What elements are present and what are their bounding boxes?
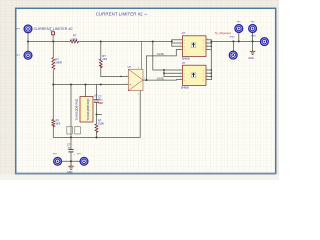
junction ref column bottom: [70, 136, 72, 138]
junction drain bus top: [210, 40, 212, 42]
wire R5 to bottom rail: [96, 131, 98, 137]
wire top box pin1 link: [172, 39, 183, 41]
junction bottom box bus b: [163, 72, 165, 74]
ground right: [250, 51, 256, 54]
svg-text:GND: GND: [251, 36, 256, 38]
svg-text:U?: U?: [94, 93, 98, 97]
junction input node: [27, 40, 29, 42]
bottom outside strip: [0, 175, 279, 180]
testpoint TP1 pad: [52, 32, 55, 35]
svg-text:GND: GND: [248, 57, 254, 60]
capacitor C bottom: [68, 150, 73, 152]
title trailing dash: [144, 13, 147, 15]
wire ref column: [70, 85, 72, 150]
wire ring2 stem: [252, 33, 254, 42]
svg-text:510K: 510K: [98, 121, 104, 125]
wire tlv top pin: [85, 85, 87, 97]
junction drain pin 6: [210, 45, 212, 47]
wire gnd stem right: [252, 41, 254, 51]
wire R4 column: [100, 42, 102, 60]
wire right rail: [211, 40, 260, 42]
svg-text:5: 5: [207, 48, 208, 50]
connector ring top2: [249, 25, 257, 33]
svg-text:1K0: 1K0: [56, 121, 61, 125]
sheet: [16, 8, 276, 173]
svg-text:7: 7: [207, 42, 208, 44]
svg-text:R?: R?: [73, 34, 77, 38]
svg-text:4: 4: [180, 78, 181, 80]
wire tp ring stem: [232, 41, 234, 50]
pin 2 speck: [120, 76, 122, 78]
junction drain pin 7b: [210, 72, 212, 74]
junction R4 top: [100, 40, 102, 42]
svg-text:GND: GND: [230, 37, 235, 39]
junction ring1 tap: [238, 40, 240, 42]
resistor R1 shunt: [70, 40, 79, 43]
wire opamp plus rail: [53, 84, 128, 86]
wire R2 column: [52, 42, 54, 58]
canvas background: [0, 0, 279, 180]
svg-text:2: 2: [180, 42, 181, 44]
mosfet U3 top box: [182, 36, 206, 57]
svg-text:6: 6: [207, 75, 208, 77]
svg-text:TLV431QDBVRQ1: TLV431QDBVRQ1: [76, 98, 79, 121]
svg-text:Tp_Rejected: Tp_Rejected: [215, 31, 231, 35]
junction out rail tee: [70, 160, 72, 162]
svg-text:3: 3: [180, 75, 181, 77]
svg-text:8: 8: [207, 39, 208, 41]
junction drain pin 6b: [210, 76, 212, 78]
wire gate elbow bottom: [176, 79, 182, 82]
connector ring IN-: [24, 51, 32, 59]
connector ring OUT+: [54, 157, 62, 165]
junction R2 top: [52, 40, 54, 42]
wire C6 R5 column: [96, 85, 98, 100]
svg-text:GND: GND: [67, 171, 73, 174]
connector ring rail end: [261, 38, 269, 46]
wire top box right pins: [206, 39, 211, 41]
wire R2 column lower: [52, 71, 54, 120]
svg-text:CURRENT LIMITER #2: CURRENT LIMITER #2: [96, 12, 143, 17]
junction R2 bottom node: [52, 83, 54, 85]
bottom border repaint: [15, 173, 277, 175]
svg-text:GATE: GATE: [157, 52, 164, 56]
wire top rail left: [28, 41, 70, 43]
svg-text:4: 4: [180, 48, 181, 50]
wire top box left bus: [171, 40, 173, 46]
wire bottom box source drop: [153, 42, 164, 71]
svg-text:GATE: GATE: [157, 76, 164, 80]
junction ref column top: [70, 83, 72, 85]
wire drain bus: [210, 40, 212, 80]
wire bottom box right pins: [206, 69, 211, 71]
svg-text:1: 1: [180, 69, 181, 71]
svg-text:8: 8: [207, 69, 208, 71]
svg-text:2K4: 2K4: [102, 57, 107, 61]
svg-text:4: 4: [138, 93, 139, 95]
wire C6 R5 column mid: [96, 102, 98, 124]
wire stub node: [97, 113, 102, 115]
junction C6 R5 mid node: [96, 113, 98, 115]
wire opamp V+: [140, 42, 142, 70]
svg-text:6: 6: [207, 45, 208, 47]
svg-text:3: 3: [180, 45, 181, 47]
svg-text:8: 8: [138, 67, 139, 69]
wire testpoint stub: [52, 35, 54, 42]
wire top box pin3 link: [172, 45, 183, 47]
junction gnd tap: [252, 40, 254, 42]
junction source drop tap: [152, 40, 154, 42]
junction drain pin 7: [210, 42, 212, 44]
svg-text:U?: U?: [128, 65, 132, 69]
junction R5 bottom: [95, 136, 97, 138]
junction bottom box bus a: [163, 69, 165, 71]
connector ring top1: [235, 25, 243, 33]
connector ring IN+: [24, 25, 32, 33]
svg-text:SI4936: SI4936: [181, 86, 190, 89]
svg-text:-: -: [129, 75, 130, 79]
svg-text:0R05: 0R05: [71, 37, 78, 41]
junction opamp plus node: [100, 83, 102, 85]
svg-text:2: 2: [180, 72, 181, 74]
wire R3 to bottom rail and opamp V- return: [53, 91, 140, 138]
wire bottom box left bus: [163, 70, 165, 76]
wire opamp output: [143, 79, 176, 81]
resistor R5: [95, 124, 98, 132]
wire gate riser: [147, 49, 183, 80]
svg-text:1: 1: [180, 39, 181, 41]
svg-text:1: 1: [144, 78, 145, 80]
wire bottom box pin3 link: [164, 75, 182, 77]
wire loop square A: [67, 127, 73, 135]
svg-text:TLV431QDBVRQ1: TLV431QDBVRQ1: [87, 98, 90, 121]
junction drain pin 8b: [210, 69, 212, 71]
wire ring1 stem: [238, 33, 240, 42]
wire out rail: [62, 160, 80, 162]
wire top box pin2 link: [172, 42, 183, 44]
wire R4 to opamp minus: [101, 65, 129, 76]
svg-text:2: 2: [126, 75, 127, 77]
tlv431 U1: [80, 97, 93, 123]
ground bottom: [68, 161, 74, 169]
svg-text:240R: 240R: [56, 60, 62, 64]
wire top rail right of R1: [79, 41, 172, 43]
junction top box bus tap: [171, 41, 173, 43]
resistor R4: [99, 59, 102, 68]
wire input connector stem: [27, 33, 29, 51]
svg-text:5: 5: [207, 78, 208, 80]
connector ring OUT-: [80, 157, 88, 165]
wire bottom box pin1 link: [164, 69, 182, 71]
wire bottom cap to out rail: [70, 152, 72, 162]
junction gate riser: [145, 79, 147, 81]
mosfet U4 bottom box: [182, 65, 206, 85]
svg-text:+: +: [129, 83, 131, 87]
wire bottom box pin2 link: [164, 72, 182, 74]
resistor R2: [52, 58, 55, 70]
svg-text:3: 3: [126, 83, 127, 85]
junction tlv top pin: [84, 83, 86, 85]
resistor R3: [52, 120, 55, 127]
svg-text:7: 7: [207, 72, 208, 74]
wire loop square B: [75, 127, 81, 135]
capacitor C6: [94, 100, 99, 102]
op-amp U2: [126, 65, 145, 95]
junction rejected tap: [232, 40, 234, 42]
svg-text:SI4936: SI4936: [182, 58, 191, 61]
connector ring rejected: [229, 51, 237, 59]
